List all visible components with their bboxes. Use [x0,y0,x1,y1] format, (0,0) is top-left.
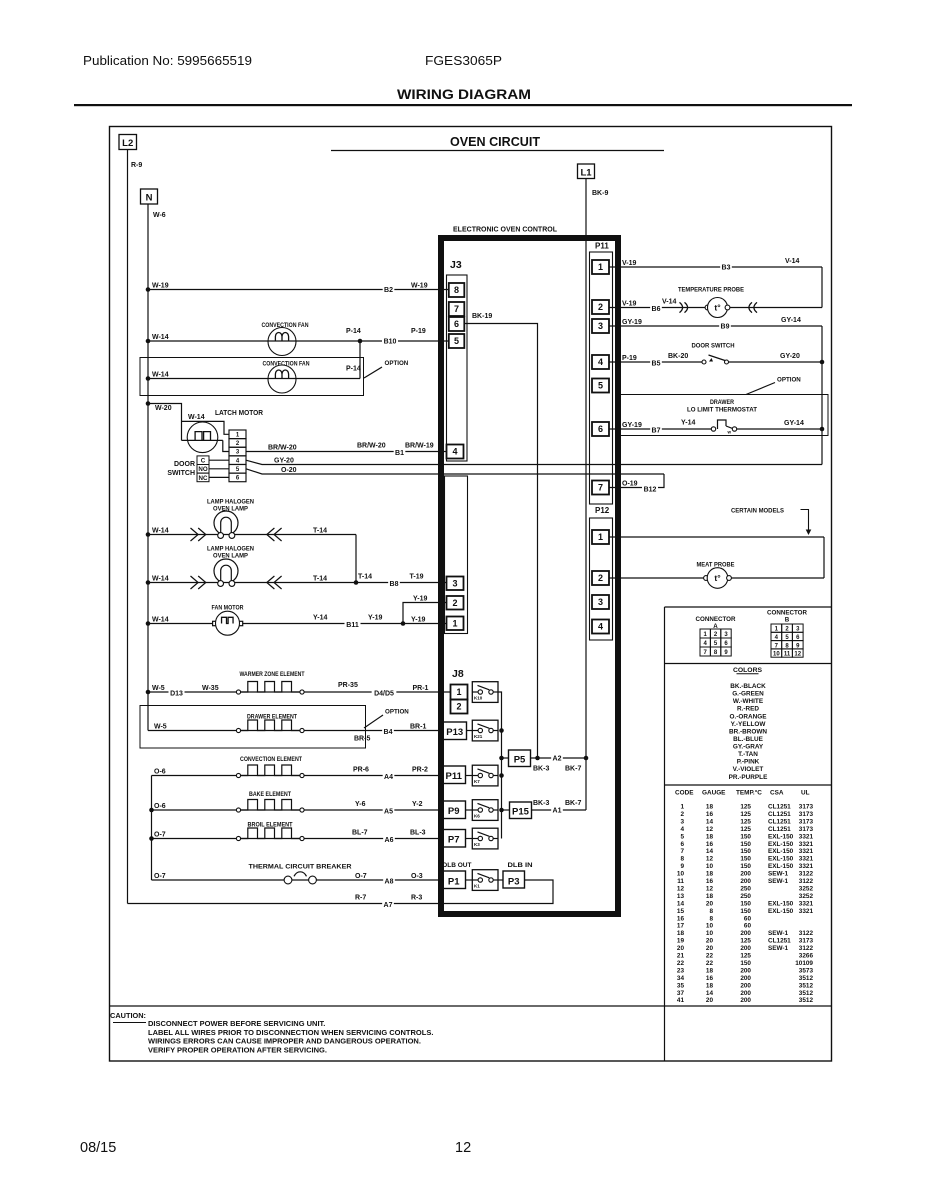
svg-text:K3: K3 [474,842,480,847]
svg-text:200: 200 [740,982,751,989]
title OVEN CIRCUIT [331,135,664,151]
svg-text:3573: 3573 [799,967,814,974]
door switch S2 [702,355,822,364]
svg-text:BR.-BROWN: BR.-BROWN [729,728,767,735]
wire O-7 O-7 A8 O-3 thermal row to P1 [152,873,444,886]
svg-text:10: 10 [706,863,714,870]
svg-text:LAMP HALOGEN: LAMP HALOGEN [207,499,254,506]
svg-text:20: 20 [706,945,714,952]
svg-text:3173: 3173 [799,818,814,825]
svg-text:OPTION: OPTION [777,377,801,384]
svg-text:200: 200 [740,871,751,878]
svg-text:GY-20: GY-20 [780,353,800,360]
wire L1 bus BK-9 [585,179,587,811]
svg-text:W-20: W-20 [155,405,172,412]
svg-text:CONNECTOR: CONNECTOR [767,610,808,617]
svg-text:EXL-150: EXL-150 [768,833,794,840]
svg-text:13: 13 [677,893,685,900]
svg-text:3173: 3173 [799,826,814,833]
svg-text:BK-3: BK-3 [533,800,549,807]
svg-text:A1: A1 [553,808,562,815]
wire W-5 D13 W-35 PR-35 D4/D5 PR-1 warmer row to J8 pin 1 [146,682,451,698]
colors legend [729,667,768,781]
svg-text:10: 10 [677,871,685,878]
svg-text:250: 250 [740,885,751,892]
svg-text:12: 12 [455,1140,471,1156]
svg-text:9: 9 [680,863,684,870]
svg-text:V-14: V-14 [785,258,800,265]
svg-text:P12: P12 [595,506,610,515]
svg-text:BL.-BLUE: BL.-BLUE [733,736,764,743]
svg-text:WIRINGS ERRORS CAN CAUSE IMPRO: WIRINGS ERRORS CAN CAUSE IMPROPER AND DA… [148,1037,421,1046]
wire lamp1 to lamp2 branch [355,535,357,583]
svg-text:B8: B8 [390,581,399,588]
option box drawer lo limit thermostat [616,395,829,436]
J8 pin 2 [451,700,468,714]
svg-text:14: 14 [706,990,714,997]
svg-text:BK-7: BK-7 [565,800,581,807]
svg-text:B: B [785,617,790,624]
P11 pin 7 [592,481,609,495]
svg-text:W-14: W-14 [152,371,169,378]
svg-text:18: 18 [706,833,714,840]
svg-text:8: 8 [709,908,713,915]
svg-text:200: 200 [740,975,751,982]
wire option fan branch [359,341,361,379]
svg-text:BK-9: BK-9 [592,190,608,197]
svg-text:P.-PINK: P.-PINK [737,759,760,766]
svg-text:SEW-1: SEW-1 [768,871,789,878]
svg-text:B1: B1 [395,450,404,457]
svg-text:BR-1: BR-1 [410,723,426,730]
wire O bus left vertical [149,776,154,881]
svg-text:O-7: O-7 [154,873,166,880]
svg-text:22: 22 [706,953,714,960]
svg-text:W-6: W-6 [153,212,166,219]
info column frame [665,607,832,1061]
svg-text:R-7: R-7 [355,894,366,901]
svg-text:OPTION: OPTION [385,360,409,367]
svg-text:EXL-150: EXL-150 [768,841,794,848]
svg-text:TEMPERATURE PROBE: TEMPERATURE PROBE [678,287,744,294]
svg-text:P-14: P-14 [346,365,361,372]
svg-text:150: 150 [740,900,751,907]
svg-text:12: 12 [706,826,714,833]
svg-text:12: 12 [706,856,714,863]
wire W-14 T-14 lamp row 1 [146,527,356,541]
svg-text:D13: D13 [170,691,183,698]
svg-text:SEW-1: SEW-1 [768,878,789,885]
wire BR/W-20 B1 BR/W-19 row to J3 pin 4 [246,442,447,457]
svg-text:1: 1 [598,262,603,272]
svg-text:B7: B7 [652,428,661,435]
svg-text:6: 6 [454,319,459,329]
P11 pin 5 [592,379,609,393]
main frame border [110,127,832,1062]
svg-text:W-5: W-5 [152,685,165,692]
svg-text:CL1251: CL1251 [768,826,791,833]
wire W-14 P-14 option fan row [146,365,361,381]
svg-text:TEMP.°C: TEMP.°C [736,789,762,797]
svg-text:5: 5 [454,336,459,346]
wire GY vertical junction bus [820,326,825,465]
option pointer drawer thermostat [746,377,801,395]
svg-text:3512: 3512 [799,997,814,1004]
svg-text:GY-14: GY-14 [781,317,801,324]
svg-text:18: 18 [706,804,714,811]
temperature probe RT1 [680,298,758,318]
J3 pin 3 [447,577,464,591]
svg-text:EXL-150: EXL-150 [768,900,794,907]
svg-text:SEW-1: SEW-1 [768,930,789,937]
wire gauge table [675,789,813,1005]
svg-text:3122: 3122 [799,871,814,878]
svg-text:3: 3 [598,597,603,607]
connector P11 outline [590,252,613,504]
svg-text:150: 150 [740,908,751,915]
svg-text:V-19: V-19 [622,300,637,307]
svg-text:CL1251: CL1251 [768,804,791,811]
svg-text:P13: P13 [446,727,463,738]
svg-text:R-9: R-9 [131,162,142,169]
svg-text:3: 3 [680,818,684,825]
svg-text:t°: t° [714,573,721,583]
wire BK-3 A2 BK-7 row P5 to L1 [531,754,589,773]
svg-text:V.-VIOLET: V.-VIOLET [733,766,764,773]
svg-text:OVEN LAMP: OVEN LAMP [213,553,248,560]
svg-text:4: 4 [680,826,684,833]
svg-text:BK-7: BK-7 [565,766,581,773]
svg-text:O.-ORANGE: O.-ORANGE [730,713,768,720]
svg-text:14: 14 [706,848,714,855]
wire BK-19 from J3 pin 6 [464,324,537,759]
svg-text:t°: t° [714,303,721,313]
svg-text:Publication No: 5995665519: Publication No: 5995665519 [83,53,252,68]
P12 pin 4 [592,620,609,634]
svg-text:150: 150 [740,841,751,848]
relay K21 [472,720,498,741]
option box convection fan [140,358,409,396]
J3 pin 6 [449,317,465,331]
connector J3 lower outline [445,476,468,634]
svg-text:200: 200 [740,930,751,937]
svg-text:2: 2 [456,702,461,712]
svg-text:CL1251: CL1251 [768,818,791,825]
svg-text:2: 2 [680,811,684,818]
svg-text:DLB OUT: DLB OUT [443,862,473,869]
terminal P13 [443,722,472,740]
svg-text:Y.-YELLOW: Y.-YELLOW [731,721,767,728]
svg-text:FAN MOTOR: FAN MOTOR [212,605,244,612]
svg-text:BR/W-20: BR/W-20 [357,442,386,449]
svg-text:125: 125 [740,826,751,833]
svg-text:GY.-GRAY: GY.-GRAY [733,744,764,751]
oven lamp DS1 label [207,499,254,513]
relay K10 [472,682,498,703]
terminal P7 [442,830,472,848]
svg-text:11: 11 [677,878,684,885]
J3 pin 7 [449,302,465,316]
connector B grid [767,610,808,658]
svg-text:B12: B12 [644,487,657,494]
svg-text:3321: 3321 [799,908,814,915]
svg-text:3173: 3173 [799,804,814,811]
svg-text:OVEN CIRCUIT: OVEN CIRCUIT [450,135,540,149]
svg-text:4: 4 [452,447,457,457]
P11 pin 1 [592,260,609,274]
connector J3 upper outline [447,275,468,461]
svg-text:16: 16 [677,915,685,922]
svg-text:P7: P7 [448,835,460,846]
svg-text:DRAWER: DRAWER [710,400,735,406]
svg-text:14: 14 [706,818,714,825]
wire W-14 T-14 B8 T-19 lamp row 2 to J3 pin 3 [146,573,447,589]
svg-text:10: 10 [706,930,714,937]
relay K6 [472,800,498,821]
svg-text:60: 60 [744,915,752,922]
svg-text:7: 7 [454,304,459,314]
svg-text:150: 150 [740,960,751,967]
svg-text:CONNECTOR: CONNECTOR [696,616,737,623]
svg-text:P11: P11 [595,242,609,251]
svg-text:10: 10 [706,923,714,930]
svg-text:CL1251: CL1251 [768,938,791,945]
svg-text:7: 7 [598,483,603,493]
wire Y-19 branch to J3 pin 2 [403,595,447,623]
svg-text:VERIFY PROPER OPERATION AFTER: VERIFY PROPER OPERATION AFTER SERVICING. [148,1045,327,1054]
svg-text:20: 20 [677,945,685,952]
node L1 [578,164,609,197]
svg-text:T-14: T-14 [313,575,327,582]
svg-text:3512: 3512 [799,982,814,989]
svg-text:1: 1 [680,804,684,811]
svg-text:19: 19 [677,938,685,945]
J8 pin 1 [451,685,468,700]
header rule [74,104,852,106]
wire N bus W-6 [147,204,149,731]
svg-text:12: 12 [677,885,685,892]
svg-text:14: 14 [677,900,685,907]
svg-text:EXL-150: EXL-150 [768,863,794,870]
svg-text:150: 150 [740,833,751,840]
svg-text:150: 150 [740,856,751,863]
svg-text:B11: B11 [346,622,359,629]
svg-text:K7: K7 [474,779,480,784]
svg-text:FGES3065P: FGES3065P [425,53,502,68]
svg-text:150: 150 [740,848,751,855]
wire V-19 B3 V-14 row P11 pin 1 [609,258,822,272]
svg-text:BK-20: BK-20 [668,353,688,360]
wire W-19 B2 row to J3 pin 8 [146,282,449,294]
svg-text:125: 125 [740,811,751,818]
svg-text:R-3: R-3 [411,894,422,901]
header publication text [83,53,531,102]
wire P12 pin 1 row [609,537,824,578]
electronic oven control box U1 [441,238,618,914]
svg-text:GY-19: GY-19 [622,319,642,326]
svg-text:B2: B2 [384,287,393,294]
svg-text:200: 200 [740,990,751,997]
svg-text:125: 125 [740,938,751,945]
svg-text:G.-GREEN: G.-GREEN [732,691,764,698]
wire W-5 BR-5 B4 BR-1 drawer row to P13 [148,723,443,742]
svg-text:17: 17 [677,923,685,930]
J3 pin 2 [447,596,464,610]
svg-text:A5: A5 [384,809,393,816]
svg-text:200: 200 [740,997,751,1004]
svg-text:LAMP HALOGEN: LAMP HALOGEN [207,546,254,553]
svg-text:8: 8 [709,915,713,922]
P11 pin 6 [592,422,609,436]
svg-text:6: 6 [598,424,603,434]
svg-text:2: 2 [598,302,603,312]
P12 pin 2 [592,571,609,585]
svg-text:DLB IN: DLB IN [508,862,533,869]
svg-text:3321: 3321 [799,841,814,848]
svg-text:O-20: O-20 [281,467,297,474]
svg-text:CAUTION:: CAUTION: [110,1011,146,1020]
svg-text:UL: UL [801,790,810,797]
svg-text:7: 7 [680,848,684,855]
svg-text:LATCH MOTOR: LATCH MOTOR [215,410,263,417]
svg-text:20: 20 [706,900,714,907]
svg-text:K10: K10 [474,696,483,701]
svg-text:23: 23 [677,967,685,974]
wire W-20 latch feed [146,401,229,440]
node N [141,189,166,219]
svg-text:O-7: O-7 [154,831,166,838]
svg-text:10109: 10109 [795,960,813,967]
wire GY-19 B9 GY-14 row P11 pin 3 [609,317,822,331]
svg-text:5: 5 [680,833,684,840]
svg-text:3321: 3321 [799,848,814,855]
svg-text:A7: A7 [384,902,393,909]
svg-text:B6: B6 [652,306,661,313]
svg-text:CL1251: CL1251 [768,811,791,818]
svg-text:W-14: W-14 [152,527,169,534]
svg-text:200: 200 [740,878,751,885]
svg-text:20: 20 [706,997,714,1004]
door switch S1 contact blocks C NO NC [167,456,229,482]
relay K7 [472,765,498,786]
svg-text:4: 4 [598,622,603,632]
svg-text:BK.-BLACK: BK.-BLACK [730,683,766,690]
oven lamp DS2 [214,559,238,582]
wire GY-19 B7 Y-14 GY-14 thermostat row P11 pin 6 [609,419,804,434]
wire V-19 B6 V-14 temperature probe row P11 pin 2 [609,267,822,313]
svg-text:18: 18 [706,967,714,974]
meat probe RT2 [704,568,732,589]
J3 pin 4 [447,445,464,459]
svg-text:3321: 3321 [799,863,814,870]
wire R-7 A7 R-3 bottom row from L2 [128,880,554,909]
P11 pin 3 [592,319,609,333]
svg-text:11: 11 [784,652,791,658]
svg-text:GY-14: GY-14 [784,420,804,427]
svg-text:NC: NC [199,475,208,482]
svg-text:THERMAL CIRCUIT BREAKER: THERMAL CIRCUIT BREAKER [249,864,352,871]
svg-text:GAUGE: GAUGE [702,790,726,797]
svg-text:18: 18 [706,982,714,989]
svg-text:22: 22 [706,960,714,967]
svg-text:ELECTRONIC OVEN CONTROL: ELECTRONIC OVEN CONTROL [453,225,557,234]
svg-text:LO LIMIT THERMOSTAT: LO LIMIT THERMOSTAT [687,408,757,414]
svg-text:PR-2: PR-2 [412,766,428,773]
convection fan M1 [262,322,309,356]
svg-text:W.-WHITE: W.-WHITE [733,698,764,705]
svg-text:WARMER ZONE ELEMENT: WARMER ZONE ELEMENT [240,671,305,678]
wire W-14 P-14 B10 P-19 row to J3 pin 5 [146,328,449,346]
svg-text:Y-19: Y-19 [411,616,426,623]
svg-text:EXL-150: EXL-150 [768,908,794,915]
svg-text:125: 125 [740,804,751,811]
svg-text:1: 1 [598,532,603,542]
wire GY-20 long row [246,457,822,464]
svg-text:O-6: O-6 [154,803,166,810]
terminal P15 [502,802,532,819]
svg-text:J3: J3 [450,259,462,271]
svg-text:SEW-1: SEW-1 [768,945,789,952]
svg-text:P5: P5 [514,755,526,766]
svg-text:O-7: O-7 [355,873,367,880]
svg-text:P-19: P-19 [411,328,426,335]
svg-text:B3: B3 [722,265,731,272]
svg-text:B10: B10 [384,339,397,346]
svg-text:W-35: W-35 [202,685,219,692]
svg-text:21: 21 [677,953,685,960]
svg-text:LABEL ALL WIRES PRIOR TO DISCO: LABEL ALL WIRES PRIOR TO DISCONNECTION W… [148,1028,433,1037]
svg-text:35: 35 [677,982,685,989]
svg-text:18: 18 [677,930,685,937]
svg-text:B4: B4 [384,729,393,736]
J3 pin 1 [447,617,464,631]
svg-text:K1: K1 [474,884,480,889]
svg-text:K6: K6 [474,814,480,819]
svg-text:12: 12 [794,652,801,658]
svg-text:5: 5 [598,381,603,391]
svg-text:16: 16 [706,878,714,885]
svg-text:DOOR: DOOR [174,461,195,468]
drawer lo limit thermostat S3 [711,420,822,435]
terminal P1 DLB OUT [442,862,472,889]
svg-text:3122: 3122 [799,945,814,952]
svg-text:L2: L2 [122,138,133,149]
svg-text:Y-19: Y-19 [413,595,428,602]
svg-text:1: 1 [456,687,461,697]
svg-text:200: 200 [740,967,751,974]
svg-text:3321: 3321 [799,833,814,840]
svg-text:Y-14: Y-14 [313,614,328,621]
wire O-6 PR-6 A4 PR-2 convection row to P11 relay [152,766,443,781]
svg-text:10: 10 [773,652,780,658]
fan motor M4 [213,611,243,635]
wire meat probe row P12 pin 2 [609,577,824,579]
svg-text:150: 150 [740,863,751,870]
svg-text:Y-2: Y-2 [412,801,423,808]
svg-text:18: 18 [706,893,714,900]
svg-text:3321: 3321 [799,900,814,907]
wire P-19 B5 BK-20 door switch row P11 pin 4 [609,353,800,368]
svg-text:3512: 3512 [799,990,814,997]
thermal circuit breaker CB1 [284,872,316,884]
svg-text:3266: 3266 [799,953,814,960]
wire O-19 B12 row P11 pin 7 [609,474,664,494]
svg-text:PR-6: PR-6 [353,766,369,773]
terminal P11 relay input [442,766,472,784]
svg-text:P-14: P-14 [346,328,361,335]
svg-text:W-19: W-19 [411,282,428,289]
svg-text:A8: A8 [385,879,394,886]
